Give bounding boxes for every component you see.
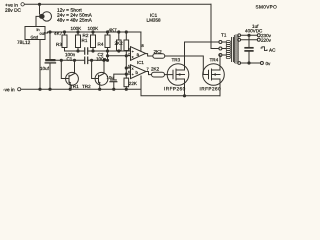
transformer T1 secondary winding xyxy=(234,35,238,63)
op-amp IC1a xyxy=(131,47,146,61)
wire TR1 collector riser xyxy=(74,60,76,70)
capacitor C4 10u lead xyxy=(114,74,127,89)
svg-text:2K2: 2K2 xyxy=(153,49,162,54)
transformer T1 core xyxy=(232,38,234,62)
svg-text:4K7: 4K7 xyxy=(54,31,63,36)
wire TR4 source xyxy=(219,79,221,96)
svg-text:AC: AC xyxy=(269,48,276,53)
svg-text:IRFP260: IRFP260 xyxy=(199,86,221,91)
svg-text:100K: 100K xyxy=(88,26,100,31)
capacitor C1 100n xyxy=(85,48,88,54)
wire R4 lower stub xyxy=(107,51,109,60)
wire gate TR4 xyxy=(165,56,209,75)
wire top +ve rail xyxy=(25,3,212,5)
svg-text:78L12: 78L12 xyxy=(17,40,31,46)
wire TR1 base riser xyxy=(61,60,69,78)
transistor TR1 xyxy=(66,72,79,85)
lamp LP1 xyxy=(42,12,51,21)
transformer T1 primary winding xyxy=(226,41,230,59)
op-amp IC1b output wire xyxy=(146,72,152,75)
svg-text:5: 5 xyxy=(128,64,130,68)
resistor R9 2K2 gate TR4 xyxy=(153,54,165,58)
mosfet TR4 IRFP260 xyxy=(203,64,225,86)
svg-text:IC1: IC1 xyxy=(137,60,144,65)
svg-text:100n: 100n xyxy=(96,56,107,61)
svg-text:x: x xyxy=(132,67,134,71)
resistor R1 100K xyxy=(76,35,81,48)
svg-text:2K2: 2K2 xyxy=(151,67,160,72)
svg-text:C1: C1 xyxy=(66,56,72,61)
svg-text:x: x xyxy=(132,55,134,59)
svg-text:3: 3 xyxy=(128,47,130,51)
svg-text:4K7: 4K7 xyxy=(109,27,118,32)
wire 220v output xyxy=(241,39,258,41)
wire TR2 base riser xyxy=(92,60,99,78)
svg-text:R4: R4 xyxy=(98,42,104,47)
svg-text:100K: 100K xyxy=(71,26,83,31)
resistor R3 4K7 xyxy=(62,35,67,48)
svg-text:TR2: TR2 xyxy=(82,84,91,89)
svg-text:2: 2 xyxy=(128,52,130,56)
svg-text:LM358: LM358 xyxy=(147,18,161,23)
wire base bus xyxy=(51,59,108,61)
svg-text:Gnd: Gnd xyxy=(31,35,39,40)
transformer T1 primary taps xyxy=(219,41,222,44)
svg-text:22K: 22K xyxy=(129,81,138,86)
op-amp IC1b xyxy=(131,65,147,79)
resistor R10 2K2 gate TR3 xyxy=(152,72,165,77)
resistor R7 2K2 xyxy=(124,40,129,51)
wire gate TR3 xyxy=(165,74,174,76)
capacitor C5 10uf lead xyxy=(49,32,51,89)
wire lamp to regulator input xyxy=(36,16,40,26)
transformer T1 secondary taps xyxy=(238,34,241,37)
svg-text:0v: 0v xyxy=(265,61,271,66)
op-amp IC1a output wire xyxy=(146,54,153,56)
resistor R4 100K xyxy=(105,35,110,48)
wire TR2 collector riser xyxy=(103,60,105,70)
capacitor C2 100n xyxy=(85,57,88,63)
svg-text:-ve in: -ve in xyxy=(3,87,15,93)
svg-text:SM0VPO: SM0VPO xyxy=(256,4,278,9)
svg-text:TR3: TR3 xyxy=(171,57,180,62)
wire 230v output xyxy=(241,34,258,36)
svg-text:2K2: 2K2 xyxy=(115,41,124,46)
capacitor C3 1uf 400VDC xyxy=(248,35,250,63)
svg-text:TR4: TR4 xyxy=(209,57,218,62)
svg-text:10u: 10u xyxy=(106,75,114,80)
wire regulator gnd drop xyxy=(39,40,41,90)
wire IC1b input tees xyxy=(126,68,130,74)
svg-text:+ve in: +ve in xyxy=(5,3,18,9)
svg-text:R3: R3 xyxy=(56,42,62,47)
squarewave symbol xyxy=(261,47,268,51)
resistor R6 4K7 xyxy=(117,40,122,51)
svg-text:48v = 48v 25mA: 48v = 48v 25mA xyxy=(57,18,93,24)
svg-text:220v: 220v xyxy=(261,38,272,43)
lamp LP1 drop wire xyxy=(39,4,41,14)
wire regulator out 12v rail xyxy=(45,32,141,33)
wire TR3 drain xyxy=(185,42,219,70)
wire TR4 drain xyxy=(219,55,220,70)
svg-text:10uf: 10uf xyxy=(40,66,50,71)
svg-text:6: 6 xyxy=(128,70,130,74)
wire node A oscillator top xyxy=(65,50,131,52)
wire TR3 source xyxy=(184,79,186,96)
wire IC1b pin4 gnd xyxy=(140,76,142,89)
capacitor C4 10u plates xyxy=(110,79,117,80)
resistor R2 100K xyxy=(91,35,96,48)
svg-text:out: out xyxy=(40,31,46,36)
wire -ve rail xyxy=(21,88,141,90)
transistor TR2 xyxy=(95,72,108,85)
svg-text:TR1: TR1 xyxy=(70,84,79,89)
wire 0v output xyxy=(241,62,261,64)
node +ve terminal xyxy=(21,3,24,6)
capacitor C5 10uf plates xyxy=(45,59,55,61)
resistor R8 22K xyxy=(124,78,129,87)
mosfet TR3 IRFP260 xyxy=(167,64,189,86)
wire IC1 pin8 supply drop xyxy=(140,32,142,51)
svg-text:R1: R1 xyxy=(82,38,88,43)
svg-text:IRFP260: IRFP260 xyxy=(164,86,186,91)
wire rail down to transformer centre tap xyxy=(211,4,219,48)
regulator U1 78L12 box xyxy=(25,27,45,40)
svg-text:28v DC: 28v DC xyxy=(5,8,22,14)
wire node B inverting xyxy=(108,55,131,57)
wire -ve rail lower right xyxy=(141,89,220,96)
svg-text:T1: T1 xyxy=(221,33,227,38)
